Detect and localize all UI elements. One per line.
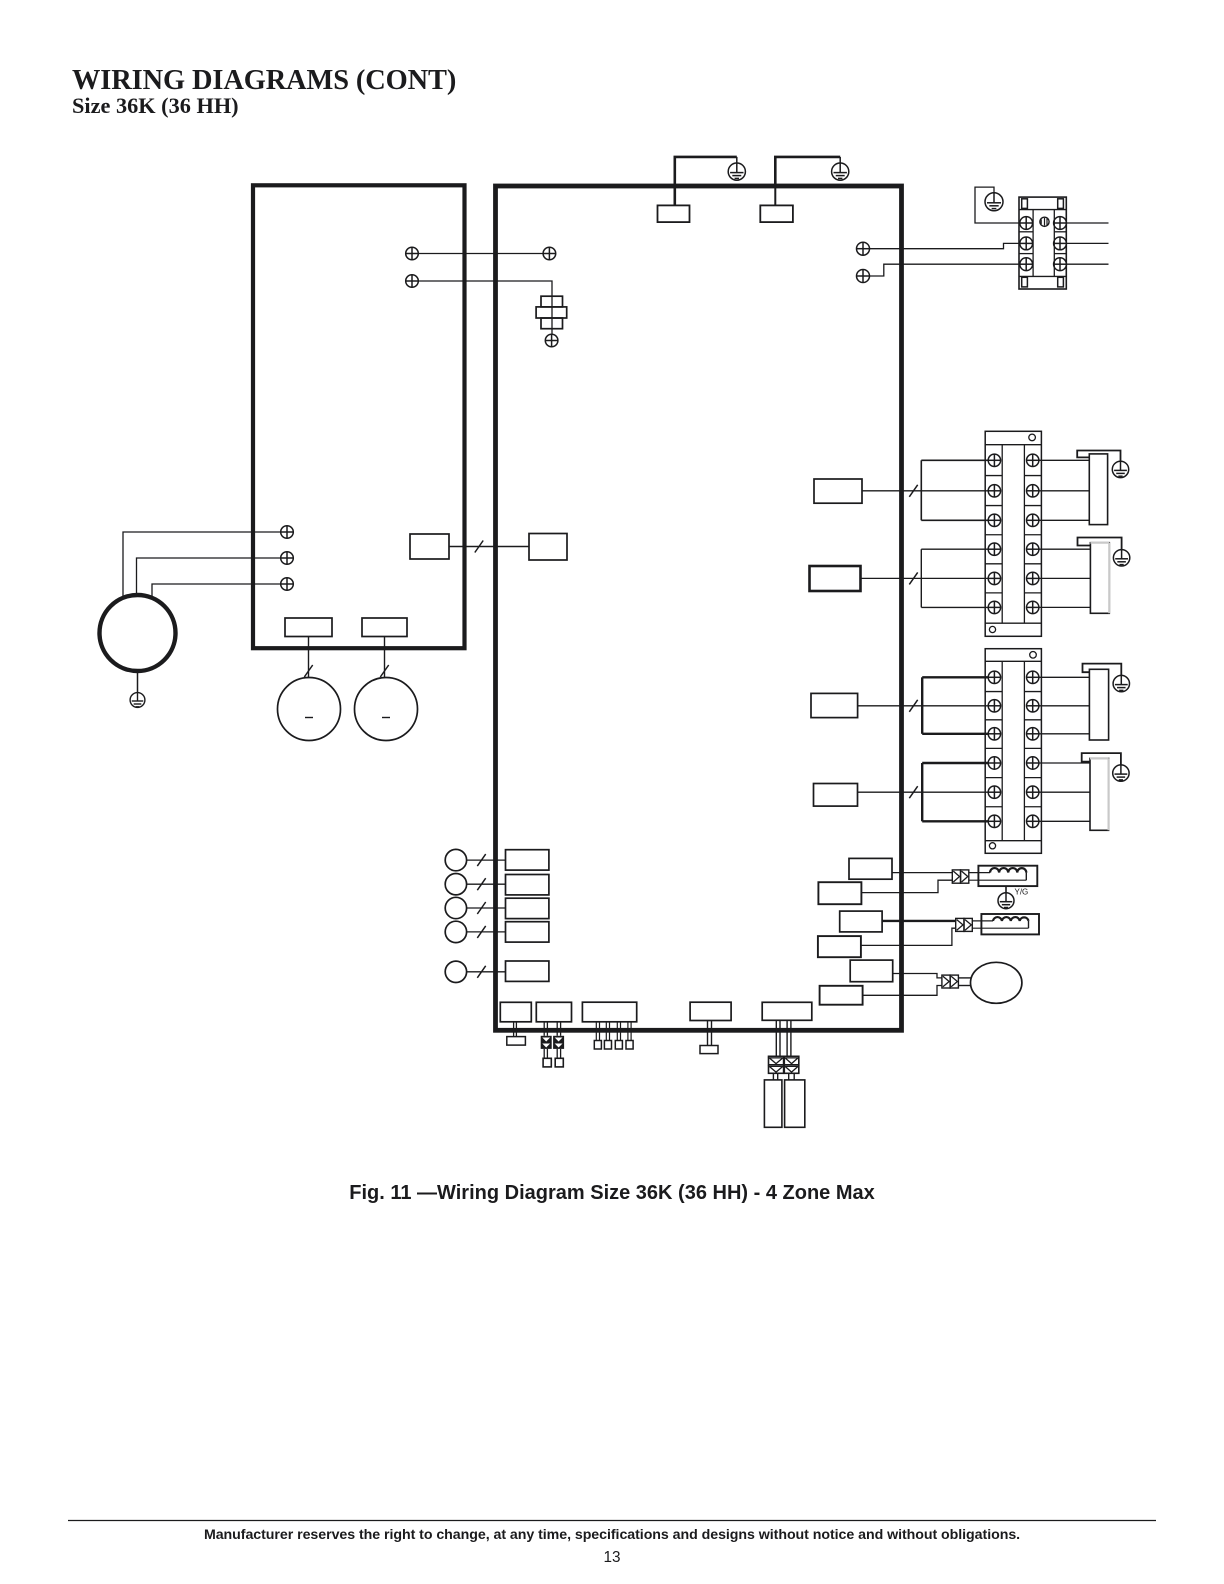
zone4 device ground symbol [1113,765,1129,781]
zone4 slash mark [909,786,917,798]
limit switch rect 2 [760,205,793,222]
wire input 3 [467,907,506,909]
TB1 right terminal 2 [1054,237,1067,250]
wire between boxes [449,546,529,548]
TB2 left terminal 3 [988,514,1000,526]
ground symbol under motor [130,693,145,708]
bottom E pins upper [776,1020,791,1056]
component rect in main box [529,534,567,561]
input relay rect 4 [506,922,549,942]
svg-text:Manufacturer reserves the righ: Manufacturer reserves the right to chang… [204,1527,1020,1543]
zone4 device wire row3 [1039,820,1090,822]
zone2 device wire row3 [1039,606,1090,608]
TB2 right terminal 5 [1027,572,1039,584]
zone2 bus wire top [921,548,988,550]
slash input 5 [477,966,485,978]
wire connector3 to pump [958,978,970,986]
zone3 slash mark [909,700,917,712]
bottom rect D [690,1002,731,1020]
left enclosure box (fan coil section) [253,185,465,648]
ground symbol top 2 [832,157,849,180]
TB2 right terminal 1 [1027,454,1039,466]
zone3 bus vertical [921,677,923,734]
zone2 bus wire bottom [921,606,988,608]
wire terminal1 to motor lead [123,532,281,599]
wire to capacitor 1 [308,637,310,678]
slash input 2 [477,878,485,890]
TB2 left terminal 1 [988,454,1000,466]
TB2 left terminal 2 [988,485,1000,497]
transformer fuse body middle [536,307,567,318]
page subtitle [72,93,239,118]
slash input 1 [477,854,485,866]
bottom rect C [582,1002,636,1022]
bottom C plug squares [594,1041,633,1050]
zone1 device wire row3 [1039,519,1089,521]
bottom E pins lower [773,1073,794,1080]
bottom C pins [596,1022,631,1041]
relay block CAP2 lead rect [362,618,407,637]
motor coil 1 [978,866,1037,886]
wire R1 to connector1 [892,872,952,874]
wire R4 to connector2 [861,928,956,945]
input relay rect 5 [506,961,549,981]
bottom B pins upper [544,1022,560,1036]
zone1 bus vertical [920,460,922,520]
bottom rect E [762,1002,812,1020]
input relay rect 1 [506,850,549,870]
zone4 bus wire bottom [922,820,988,822]
TB2 left terminal 5 [988,572,1000,584]
wire R6 to connector3 [863,986,942,996]
zone1 bus wire top [921,459,988,461]
connector plug 3 [942,975,959,988]
zone2 feed wire [861,577,989,579]
TB2 right terminal 4 [1027,543,1039,555]
TB1 left terminal 1 [1020,217,1033,230]
zone3 bus wire top [922,676,988,678]
figure caption [349,1182,875,1204]
relay rect R6 [820,986,863,1005]
zone1 feed wire [862,490,989,492]
wire top branch 1 [675,157,737,188]
wire TB1 right terminal 1 out [1066,222,1108,224]
zone2 slash mark [909,572,917,584]
TB3 right terminal 6 [1027,815,1039,827]
terminal block TB1 body [1019,197,1066,289]
zone1 device ground hook wire [1077,451,1120,462]
TB1 right terminal 1 [1054,217,1067,230]
terminal right pair B [857,270,870,283]
TB1 left terminal 2 [1020,237,1033,250]
terminal T2 left box [281,552,294,565]
relay rect R2 [818,882,861,904]
TB3 left terminal 1 [988,671,1000,683]
zone2 bus vertical [920,549,922,607]
zone2 device wire row2 [1039,577,1090,579]
slash input 3 [477,902,485,914]
wire motor to ground [137,671,139,693]
TB3 left terminal 3 [988,728,1000,740]
TB2 right terminal 6 [1027,601,1039,613]
zone3 relay rect [811,693,858,717]
bottom A pins [514,1022,517,1037]
zone1 bus wire bottom [921,519,988,521]
wire connector1 to coil1 top [969,872,990,874]
TB2 right terminal 2 [1027,485,1039,497]
zone1 relay rect [814,479,862,503]
zone3 bus wire bottom [922,733,988,735]
relay rect R1 [849,858,892,879]
terminal T3 left box [281,578,294,591]
bottom B connector 2 [553,1036,564,1049]
slash mark cap2 wire [380,665,388,677]
TB3 right terminal 4 [1027,757,1039,769]
terminal right pair A [857,242,870,255]
relay rect R4 [818,936,861,957]
bottom E connector 2 [784,1056,799,1073]
ground symbol Y/G [998,893,1014,909]
footer text [204,1527,1020,1543]
wire input 5 [467,971,506,973]
wire connector2 to coil2 bottom [972,927,1028,929]
connector plug 2 [956,918,973,931]
ground loop wire to TB1 top [975,187,1019,223]
TB1 right terminal 3 [1054,258,1067,271]
slash input 4 [477,926,485,938]
zone3 device ground symbol [1113,675,1129,691]
svg-text:Size 36K (36 HH): Size 36K (36 HH) [72,93,239,118]
ground symbol at TB1 [985,193,1003,211]
zone3 device valve body [1089,669,1108,740]
svg-text:WIRING DIAGRAMS (CONT): WIRING DIAGRAMS (CONT) [72,65,456,96]
wire R3 to connector2 [882,920,956,922]
terminal under fuse [545,334,558,347]
bottom D plug rect [700,1046,718,1054]
page title [72,65,456,96]
TB3 right terminal 1 [1027,671,1039,683]
wire input 1 [467,859,506,861]
input circle 3 [445,897,466,918]
label Y/G [1015,888,1029,897]
TB1 left terminal 3 [1020,258,1033,271]
input circle 4 [445,921,466,942]
zone1 device ground symbol [1112,461,1128,477]
wire R2 to connector1 [861,880,952,892]
zone4 device ground hook wire [1082,753,1121,765]
capacitor C2 circle [355,678,418,741]
input relay rect 2 [506,875,549,895]
TB3 left terminal 6 [988,815,1000,827]
zone4 device wire row1 [1039,762,1090,764]
pump motor oval [971,962,1022,1003]
page number [603,1549,620,1566]
zone4 device valve body [1090,758,1109,830]
wire R5 to connector3 [893,974,942,978]
TB2 left terminal 6 [988,601,1000,613]
zone2 relay rect [810,566,861,591]
wire TB1 right terminal 2 out [1066,242,1108,244]
wire TB1 right terminal 3 out [1066,263,1108,265]
zone1 device valve body [1089,454,1107,525]
wire top branch 1 down [673,188,676,205]
bottom B pins lower [544,1049,560,1058]
wire input 2 [467,883,506,885]
bottom D pins [708,1021,712,1046]
TB1 center keying symbol [1040,217,1049,226]
TB3 left terminal 2 [988,700,1000,712]
bottom E connector 1 [769,1056,784,1073]
zone2 device ground symbol [1113,550,1129,566]
wire coil1 to ground [1005,886,1007,893]
zone4 relay rect [814,784,858,807]
zone3 feed wire [858,705,989,707]
component rect in left box [410,534,449,559]
terminal left pair A [406,247,419,260]
zone2 device valve body [1090,543,1109,614]
bottom B connector 1 [541,1036,552,1049]
wire top branch 2 [775,157,840,188]
bottom B plug square 1 [543,1058,551,1067]
transformer fuse body bottom [541,318,563,329]
bottom rect A [500,1002,531,1022]
slash mark between boxes [475,541,483,553]
TB2 right terminal 3 [1027,514,1039,526]
TB3 right terminal 5 [1027,786,1039,798]
zone2 device ground hook wire [1078,538,1122,550]
bottom B plug square 2 [555,1058,563,1067]
terminal T1 left box [281,526,294,539]
relay rect R3 [840,911,882,932]
zone4 bus vertical [921,763,923,821]
wire to capacitor 2 [384,637,386,678]
zone1 device wire row1 [1039,459,1089,461]
terminal left pair B [406,275,419,288]
zone4 bus wire top [922,762,988,764]
svg-text:Fig. 11 —Wiring Diagram Size 3: Fig. 11 —Wiring Diagram Size 36K (36 HH)… [349,1182,875,1204]
TB3 right terminal 2 [1027,700,1039,712]
zone4 device wire row2 [1039,791,1090,793]
TB3 left terminal 4 [988,757,1000,769]
zone3 device wire row3 [1039,733,1089,735]
relay block CAP1 lead rect [285,618,332,637]
svg-text:13: 13 [603,1549,620,1566]
input circle 5 [445,961,466,982]
connector plug 1 [952,870,969,883]
slash mark cap1 wire [304,665,312,677]
wire terminal2 to motor lead [137,558,281,596]
wire terminalB to TB1 bottom [870,264,1020,276]
zone1 device wire row2 [1039,490,1089,492]
wire input 4 [467,931,506,933]
terminal block TB2 body (zones 1-2) [985,431,1041,636]
wire to transformer fuse [418,281,552,334]
input circle 1 [445,849,466,870]
input relay rect 3 [506,898,549,918]
blower motor [100,595,176,671]
bottom rect B [536,1002,571,1022]
bottom A plug rect [507,1037,526,1046]
zone2 device wire row1 [1039,548,1090,550]
svg-text:Y/G: Y/G [1015,888,1029,897]
footer rule [68,1520,1156,1522]
main control box enclosure [496,186,902,1030]
zone3 device wire row2 [1039,705,1089,707]
input circle 2 [445,874,466,895]
motor coil 2 [981,914,1039,934]
relay rect R5 [850,960,893,982]
TB3 left terminal 5 [988,786,1000,798]
terminal block TB3 body (zones 3-4) [985,649,1041,854]
zone3 device ground hook wire [1083,664,1122,676]
TB3 right terminal 3 [1027,728,1039,740]
ground symbol top 1 [728,157,745,180]
wire connector1 to coil1 bottom [969,879,1027,881]
wire terminal3 to motor lead [152,584,281,599]
bottom E capacitor 1 [764,1080,782,1127]
wire terminalA to TB1 middle [870,243,1020,248]
zone4 feed wire [858,791,989,793]
zone3 device wire row1 [1039,676,1089,678]
TB2 left terminal 4 [988,543,1000,555]
capacitor C1 circle [278,678,341,741]
limit switch rect 1 [658,205,690,222]
wire connector2 to coil2 top [972,920,993,922]
bottom E capacitor 2 [785,1080,805,1127]
zone1 slash mark [909,485,917,497]
wire across to inner terminal [418,253,543,255]
transformer fuse body top [541,296,563,307]
terminal inner top [543,247,556,260]
wire top branch 2 down [774,188,776,205]
